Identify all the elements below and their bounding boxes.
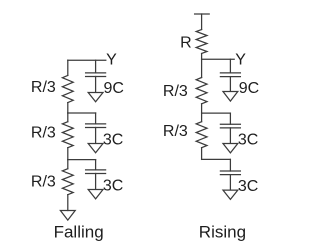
value label 9C (left) [104, 80, 124, 97]
capacitor 3C (right bottom, series) [220, 159, 240, 190]
ground (right bottom 3C) [223, 190, 238, 199]
capacitor 3C (right middle) [220, 113, 240, 143]
svg-text:R/3: R/3 [31, 79, 56, 96]
wire: right Y node horizontal [202, 58, 235, 60]
resistor R/3 #2 (left) [62, 113, 73, 160]
value label R/3 (left #1) [31, 79, 56, 96]
ground (right 9C) [223, 92, 238, 102]
capacitor 9C (left) [86, 60, 106, 92]
wire: left node 2 [68, 112, 96, 114]
svg-text:R: R [180, 35, 192, 52]
value label 3C (left bottom) [103, 177, 123, 194]
node Y (right) [235, 51, 246, 68]
value label 3C (right bottom) [238, 178, 258, 195]
value label R/3 (right #1) [163, 83, 188, 100]
resistor R/3 #3 (left) [62, 160, 73, 211]
svg-text:Rising: Rising [199, 222, 246, 241]
svg-text:Y: Y [235, 51, 246, 68]
svg-text:9C: 9C [239, 80, 259, 97]
value label 9C (right) [239, 80, 259, 97]
value label R/3 (right #2) [163, 123, 188, 140]
ground (left circuit bottom) [60, 211, 75, 221]
value label 3C (right middle) [238, 131, 258, 148]
caption Rising [199, 222, 246, 241]
value label R [180, 35, 192, 52]
wire: right node 3 L-shape [202, 158, 231, 160]
resistor R/3 #1 (right) [196, 59, 207, 113]
svg-text:9C: 9C [104, 80, 124, 97]
svg-text:3C: 3C [238, 131, 258, 148]
caption Falling [54, 222, 104, 241]
wire: left node 3 [68, 159, 96, 161]
node Y (left) [106, 51, 117, 68]
resistor R/3 #2 (right) [196, 113, 207, 159]
capacitor 9C (right) [220, 59, 240, 91]
svg-text:R/3: R/3 [31, 125, 56, 142]
ground (right middle 3C) [223, 144, 238, 153]
resistor R (right) [196, 30, 207, 60]
svg-text:R/3: R/3 [163, 83, 188, 100]
wire: right node 2 [202, 112, 231, 114]
ground (left 9C) [88, 93, 103, 102]
capacitor 3C (left bottom) [86, 160, 106, 190]
svg-text:3C: 3C [238, 178, 258, 195]
resistor R/3 #1 (left) [62, 60, 73, 113]
power rail (right top) [195, 14, 210, 30]
ground (left middle 3C) [88, 144, 103, 153]
svg-text:3C: 3C [103, 131, 123, 148]
svg-text:R/3: R/3 [31, 174, 56, 191]
ground (left bottom 3C) [88, 190, 103, 199]
value label R/3 (left #2) [31, 125, 56, 142]
wire: left Y node horizontal [68, 59, 106, 61]
capacitor 3C (left middle) [86, 113, 106, 143]
value label R/3 (left #3) [31, 174, 56, 191]
svg-text:Falling: Falling [54, 222, 104, 241]
value label 3C (left middle) [103, 131, 123, 148]
svg-text:Y: Y [106, 51, 117, 68]
svg-text:3C: 3C [103, 177, 123, 194]
svg-text:R/3: R/3 [163, 123, 188, 140]
